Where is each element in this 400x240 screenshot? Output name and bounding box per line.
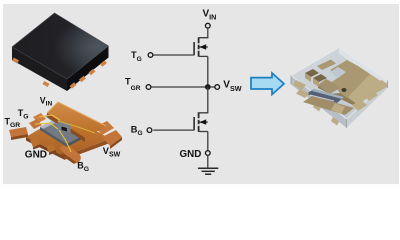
background panel	[0, 0, 400, 188]
chip pin left-2	[43, 81, 50, 87]
module right tab 1	[352, 100, 367, 111]
Q1 channel segments	[198, 37, 200, 57]
module left tab 2	[296, 89, 309, 98]
QFN package 3D view (black chip)	[12, 13, 109, 91]
chip top sheen	[12, 13, 109, 79]
module right side face	[347, 81, 388, 128]
die bottom dark edge	[67, 126, 101, 147]
wire VSW node to terminal	[211, 86, 215, 88]
clip top edge highlight	[47, 102, 106, 126]
leadframe GND tab 1	[30, 138, 40, 148]
wire BG to Q2 gate	[153, 129, 194, 131]
Q1 gate bar	[193, 42, 195, 55]
gate ledge	[44, 109, 72, 125]
bond wire 1	[39, 115, 60, 120]
module right tab 3	[374, 80, 388, 91]
wire Q1 source to VSW node	[207, 56, 209, 87]
module clip notch	[330, 67, 346, 78]
wire VSW node to Q2 drain	[199, 87, 207, 113]
leadframe left tab	[9, 127, 28, 137]
bond wire 4	[58, 121, 95, 133]
Q2 body arrow	[199, 119, 206, 124]
terminal TG	[148, 53, 153, 58]
die (silicon) top	[40, 110, 101, 144]
chip right side face	[67, 46, 109, 91]
clip notch	[58, 121, 71, 134]
leadframe right tab 2	[102, 130, 122, 146]
module corner edge left	[290, 76, 292, 85]
transistor Q1 (high-side NMOS)	[194, 37, 208, 57]
leadframe GND tab 1 side	[33, 145, 40, 150]
gate pad 1	[33, 113, 46, 123]
leadframe lower plate side	[26, 137, 64, 160]
clip notch via	[62, 127, 68, 132]
ground	[198, 168, 218, 174]
terminal GND	[205, 151, 210, 156]
module right tab 2	[363, 90, 378, 101]
leadframe right tab 1	[95, 121, 114, 135]
packaged module 3D view	[291, 48, 388, 128]
terminal VSW	[215, 85, 220, 90]
Q2 channel segments	[198, 112, 200, 132]
wire Q2 source to GND	[207, 132, 209, 151]
bond wire 2	[35, 123, 58, 129]
module die wire	[310, 95, 334, 101]
leadframe GND tab 2 side	[49, 150, 56, 155]
module side pin mid	[331, 117, 339, 126]
schematic	[125, 8, 242, 174]
svg-text:GND: GND	[180, 149, 202, 160]
leadframe BG lead side	[61, 153, 76, 164]
chip pin right-3	[89, 69, 96, 76]
Q2 source stub	[200, 131, 208, 133]
svg-text:GND: GND	[25, 150, 47, 161]
terminal TGR	[146, 85, 151, 90]
module bottom tab	[331, 103, 345, 114]
Q1 body line	[200, 46, 208, 48]
module lower plate	[303, 96, 354, 115]
chip pin right-1	[70, 82, 77, 89]
chip pin right-4	[100, 60, 107, 67]
Q1 source stub	[200, 55, 208, 57]
transition arrow	[251, 73, 284, 95]
module clip edge	[318, 85, 357, 107]
module top face	[291, 48, 388, 120]
module clip plate left arm	[318, 79, 340, 94]
upper copper clip	[47, 102, 106, 138]
module left block 2	[313, 74, 327, 82]
module internal clip plate	[330, 60, 388, 104]
die top-left light edge	[40, 110, 77, 129]
leadframe right tab 2 side	[110, 137, 122, 149]
junction VSW	[205, 84, 211, 90]
chip left side face	[12, 47, 67, 91]
gate pad 2	[29, 119, 42, 129]
die left dark edge	[40, 127, 67, 147]
transistor Q2 (low-side NMOS)	[194, 112, 208, 132]
Q1 body arrow	[199, 44, 206, 49]
upper clip front edge	[47, 113, 85, 142]
leadframe left tab side	[11, 134, 28, 140]
terminal VIN	[205, 23, 210, 28]
terminal BG	[147, 128, 152, 133]
module die	[306, 89, 344, 103]
module clip pale right	[348, 74, 388, 104]
module side pin left	[313, 103, 321, 112]
wire TG to Q1 gate	[153, 54, 194, 56]
module top edge sheen	[339, 48, 388, 85]
copper leadframe 3D view	[5, 95, 123, 173]
leadframe GND tab 2	[46, 144, 56, 153]
leadframe BG lead	[59, 144, 81, 163]
leadframe lower plate right side	[64, 139, 110, 160]
module left tab 1	[293, 80, 306, 90]
wire GND to ground symbol	[207, 156, 209, 168]
leadframe lower plate	[26, 113, 110, 156]
module left block 1 side	[305, 73, 311, 82]
module left side face	[291, 76, 347, 128]
module dark dot	[342, 88, 347, 92]
chip pin left-1	[12, 57, 19, 63]
wire TGR to VSW node	[151, 86, 208, 88]
wire VIN to Q1 drain	[199, 29, 207, 38]
module left block 2 side	[313, 78, 319, 87]
module top-left bar	[317, 60, 336, 71]
Q2 gate bar	[193, 117, 195, 130]
gate ledge pad	[47, 112, 59, 120]
chip pin right-2	[79, 76, 86, 83]
module corner edge bottom	[346, 119, 348, 128]
bond wire 3	[59, 130, 71, 152]
chip top face	[12, 13, 109, 79]
module corner edge right	[387, 81, 389, 89]
Q2 body line	[200, 121, 208, 123]
module left block 1	[305, 69, 319, 77]
module die top	[312, 89, 344, 99]
